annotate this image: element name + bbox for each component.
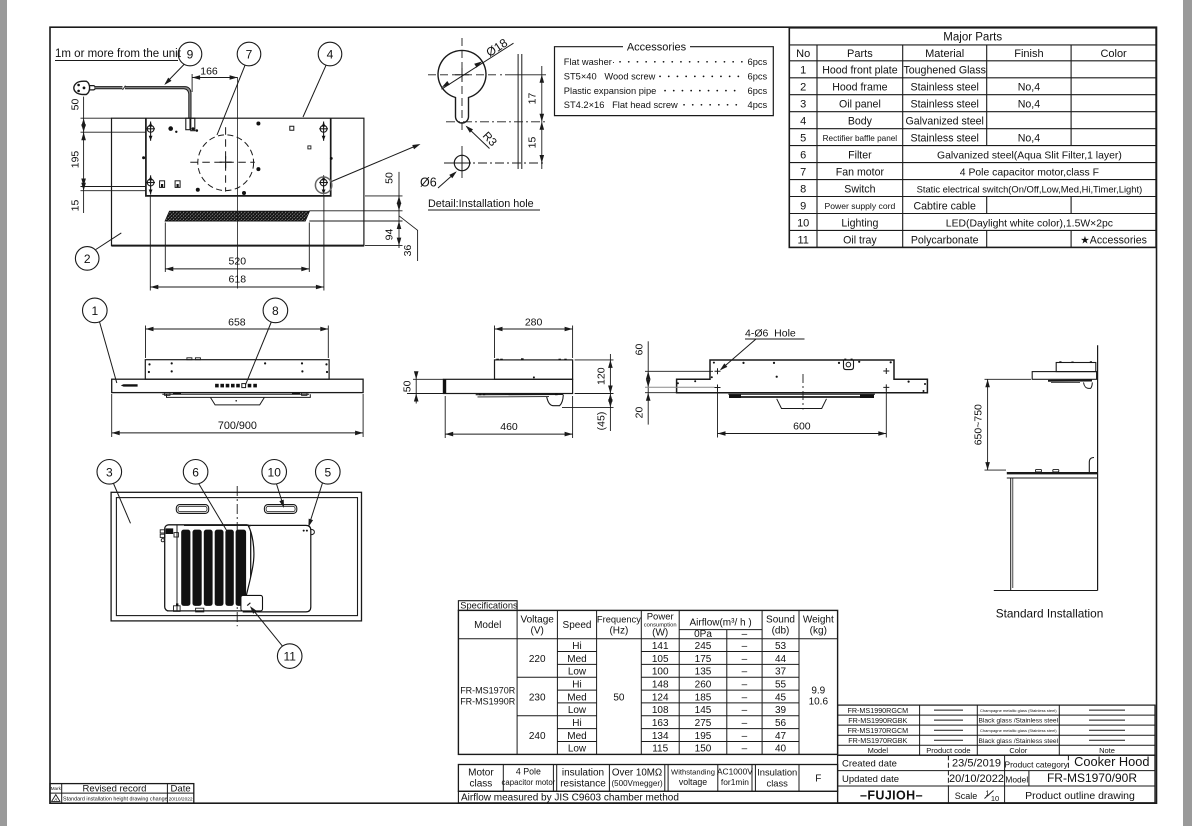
front plate [112, 379, 363, 392]
svg-text:Low: Low [568, 744, 587, 755]
hood oil cup [1084, 382, 1093, 388]
svg-text:Color: Color [1009, 746, 1027, 755]
balloon 6 [183, 460, 208, 485]
svg-text:185: 185 [695, 692, 712, 703]
svg-text:10: 10 [268, 465, 282, 479]
O6 centerline dash-dot [444, 162, 546, 164]
side view body [495, 360, 573, 379]
svg-text:Flat washer·: Flat washer· [564, 57, 615, 67]
svg-text:280: 280 [525, 317, 543, 329]
svg-text:Champagne metallic glass (Stai: Champagne metallic glass (Stainless stee… [980, 728, 1057, 733]
balloon 1 [83, 298, 108, 323]
svg-text:275: 275 [695, 718, 712, 729]
keyhole vertical centerline dashed [461, 38, 463, 132]
body centerline extension [237, 78, 239, 289]
svg-text:150: 150 [695, 744, 712, 755]
svg-text:148: 148 [652, 680, 669, 691]
svg-text:20/10/2022: 20/10/2022 [169, 796, 193, 802]
svg-text:Product category: Product category [1005, 759, 1069, 769]
svg-text:4 Pole capacitor motor,class F: 4 Pole capacitor motor,class F [960, 168, 1099, 179]
dim 618 [149, 196, 151, 291]
dim 600 [717, 390, 719, 438]
svg-text:–: – [742, 680, 748, 691]
cord break mark [123, 86, 125, 90]
svg-text:50: 50 [384, 172, 396, 184]
svg-text:–: – [742, 667, 748, 678]
svg-text:–: – [742, 692, 748, 703]
svg-text:Static electrical switch(On/Of: Static electrical switch(On/Off,Low,Med,… [917, 184, 1143, 195]
svg-text:50: 50 [613, 692, 625, 703]
svg-text:Updated date: Updated date [842, 774, 899, 785]
svg-text:Hood front plate: Hood front plate [822, 65, 897, 77]
svg-text:(db): (db) [772, 626, 790, 637]
svg-text:Filter: Filter [848, 150, 872, 162]
svg-text:Withstanding: Withstanding [671, 768, 715, 777]
svg-text:Mark: Mark [51, 786, 62, 791]
svg-text:240: 240 [529, 731, 546, 742]
svg-text:120: 120 [596, 367, 608, 385]
svg-text:(V): (V) [531, 626, 544, 637]
svg-text:658: 658 [228, 317, 246, 329]
fan centerline horizontal [190, 161, 255, 163]
svg-text:15: 15 [527, 137, 539, 149]
ext line body top [81, 117, 112, 119]
svg-text:10: 10 [991, 794, 999, 803]
dim 658 [145, 326, 147, 359]
svg-text:Med: Med [567, 654, 586, 665]
svg-text:5: 5 [800, 133, 806, 145]
rear view outline [677, 360, 928, 393]
fan centerline vertical [225, 127, 227, 191]
O6 cross [453, 154, 471, 172]
svg-text:No,4: No,4 [1018, 133, 1040, 145]
note dashes [1089, 710, 1125, 740]
svg-text:141: 141 [652, 641, 669, 652]
svg-text:17: 17 [527, 93, 539, 105]
svg-text:No,4: No,4 [1018, 99, 1040, 111]
svg-text:20: 20 [633, 407, 645, 419]
svg-text:45: 45 [775, 692, 787, 703]
svg-text:F: F [815, 774, 821, 785]
svg-text:135: 135 [695, 667, 712, 678]
svg-text:Airflow measured by JIS C9603: Airflow measured by JIS C9603 chamber me… [461, 792, 679, 803]
svg-text:105: 105 [652, 654, 669, 665]
rear oil panel trapezoid [777, 399, 827, 409]
under-plate line 1 [162, 393, 309, 395]
svg-text:(kg): (kg) [810, 626, 827, 637]
svg-text:Standard Installation: Standard Installation [996, 607, 1104, 621]
dim (45) [562, 406, 614, 408]
svg-text:Med: Med [567, 692, 586, 703]
svg-text:FR-MS1990RGBK: FR-MS1990RGBK [848, 716, 907, 725]
spec table verticals [517, 610, 799, 754]
revision triangle symbol [52, 795, 60, 802]
dim 195 left [83, 132, 85, 186]
model color table grid [838, 705, 1155, 755]
svg-text:Black glass /Stainless steel: Black glass /Stainless steel [979, 738, 1059, 745]
filter left clips [160, 530, 165, 533]
svg-text:195: 195 [70, 151, 82, 169]
svg-text:6pcs: 6pcs [748, 57, 768, 67]
balloon 9 [178, 42, 202, 66]
svg-text:Speed: Speed [563, 620, 592, 631]
dim 94 right [397, 221, 402, 229]
bottom view inner rect [116, 498, 357, 616]
svg-text:Toughened Glass: Toughened Glass [903, 65, 985, 77]
major parts table grid [789, 28, 1156, 248]
svg-text:Scale: Scale [955, 791, 978, 801]
svg-text:FR-MS1990RGCM: FR-MS1990RGCM [847, 706, 908, 715]
svg-text:Weight: Weight [803, 615, 834, 626]
svg-text:175: 175 [695, 654, 712, 665]
svg-text:10: 10 [797, 217, 809, 229]
oil panel side [476, 393, 564, 395]
balloon 2 [75, 247, 99, 271]
svg-text:9.9: 9.9 [811, 686, 825, 697]
balloon 7 [237, 42, 261, 66]
balloon 4 [318, 42, 342, 66]
top plate inner rect [146, 118, 331, 196]
baffle panel dots [303, 530, 305, 532]
svg-text:–FUJIOH–: –FUJIOH– [860, 788, 923, 802]
svg-text:1: 1 [800, 65, 806, 77]
keyhole center cross [455, 68, 469, 82]
svg-text:Ø6: Ø6 [420, 176, 437, 190]
screw BL [146, 175, 155, 194]
svg-text:Switch: Switch [844, 184, 875, 196]
svg-text:No: No [796, 48, 810, 60]
dim 36 leader [399, 216, 418, 261]
svg-text:1: 1 [91, 304, 98, 318]
svg-text:39: 39 [775, 705, 787, 716]
left gray page edge [0, 0, 7, 826]
body detail dots [168, 126, 173, 131]
svg-text:145: 145 [695, 705, 712, 716]
label R3 leader [467, 127, 490, 149]
svg-text:8: 8 [272, 304, 279, 318]
svg-text:Galvanized steel(Aqua Slit Fil: Galvanized steel(Aqua Slit Filter,1 laye… [937, 151, 1122, 162]
svg-text:Oil tray: Oil tray [843, 234, 877, 246]
svg-text:Finish: Finish [1014, 48, 1043, 60]
body top ticks [496, 359, 499, 360]
svg-text:245: 245 [695, 641, 712, 652]
svg-text:FR-MS1990R: FR-MS1990R [460, 697, 516, 707]
svg-text:50: 50 [70, 99, 82, 111]
dim 50 side [413, 378, 443, 380]
svg-text:2: 2 [800, 82, 806, 94]
svg-text:ST4.2×16 Flat head screw: ST4.2×16 Flat head screw [564, 100, 678, 110]
floor line [994, 590, 1098, 592]
svg-text:50: 50 [402, 380, 414, 392]
svg-text:Hood frame: Hood frame [832, 82, 887, 94]
svg-text:Material: Material [925, 48, 964, 60]
plate edge double line [517, 54, 519, 169]
svg-text:7: 7 [800, 167, 806, 179]
counter top [1007, 472, 1098, 474]
svg-text:Low: Low [568, 667, 587, 678]
dim 15 [540, 122, 545, 130]
svg-text:Fan motor: Fan motor [836, 167, 885, 179]
lamp slot 1 [176, 505, 208, 514]
plate front edge dark [443, 379, 446, 393]
cord grommet [186, 118, 190, 130]
oil tray [241, 595, 263, 611]
balloon 5 leader [309, 483, 322, 525]
svg-text:Rectifier baffle panel: Rectifier baffle panel [823, 134, 898, 143]
svg-text:47: 47 [775, 731, 787, 742]
cabinet front [1010, 478, 1012, 591]
balloon 11 leader [252, 608, 283, 646]
svg-text:Airflow(m³/ h ): Airflow(m³/ h ) [689, 618, 751, 629]
product code dashes [934, 710, 963, 740]
under-plate line 2 + oil panel trapezoid [167, 394, 311, 405]
svg-text:voltage: voltage [679, 777, 707, 787]
svg-text:618: 618 [229, 274, 247, 286]
svg-text:Oil panel: Oil panel [839, 99, 881, 111]
filter frame [165, 525, 251, 611]
accessories box [555, 47, 774, 116]
svg-text:Med: Med [567, 731, 586, 742]
svg-text:No,4: No,4 [1018, 82, 1040, 94]
dim 50 left [83, 97, 85, 140]
keyhole horizontal centerline dashed [428, 74, 502, 76]
svg-text:Low: Low [568, 705, 587, 716]
vent slot hatched [165, 211, 310, 221]
svg-text:Power supply cord: Power supply cord [825, 201, 896, 211]
svg-text:Over 10MΩ: Over 10MΩ [612, 768, 662, 779]
svg-text:Hi: Hi [572, 641, 581, 652]
svg-text:60: 60 [633, 344, 645, 356]
keyhole outline [438, 50, 486, 123]
svg-text:10.6: 10.6 [809, 697, 829, 708]
svg-text:3: 3 [106, 465, 113, 479]
svg-text:★Accessories: ★Accessories [1080, 234, 1147, 246]
svg-text:4 Pole: 4 Pole [516, 767, 541, 777]
svg-text:460: 460 [500, 421, 518, 433]
svg-text:Insulation: Insulation [757, 767, 797, 778]
svg-text:Power: Power [647, 612, 674, 623]
balloon 8 leader [245, 322, 271, 385]
svg-text:1m or more from the unit: 1m or more from the unit [55, 48, 182, 60]
svg-text:–: – [742, 718, 748, 729]
svg-text:4: 4 [800, 116, 806, 128]
small latch squares [160, 181, 165, 188]
ext line bottom screws [81, 186, 147, 188]
balloon 3 [97, 460, 122, 485]
logo mark on glass [121, 384, 138, 386]
baffle right tab [311, 529, 315, 535]
svg-text:230: 230 [529, 692, 546, 703]
svg-text:Standard installation height d: Standard installation height drawing cha… [63, 797, 168, 803]
balloon 10 [262, 460, 287, 485]
svg-text:Cooker Hood: Cooker Hood [1074, 754, 1149, 769]
bottom view outer rect [111, 492, 361, 621]
svg-text:5: 5 [324, 465, 331, 479]
dim 120 [575, 359, 614, 361]
svg-text:9: 9 [800, 201, 806, 213]
hood body side [1056, 363, 1096, 372]
svg-text:Voltage: Voltage [521, 615, 555, 626]
svg-text:FR-MS1970/90R: FR-MS1970/90R [1047, 771, 1137, 785]
diameter line O18 [442, 43, 514, 89]
svg-text:4-Ø6 Hole: 4-Ø6 Hole [745, 328, 796, 340]
lamp slot 2 [264, 505, 296, 514]
svg-text:166: 166 [200, 66, 218, 78]
svg-text:7: 7 [246, 48, 253, 62]
specifications label cell [458, 601, 517, 611]
svg-text:9: 9 [187, 48, 194, 62]
svg-text:–: – [742, 641, 748, 652]
svg-text:0Pa: 0Pa [694, 629, 712, 640]
svg-text:Cabtire cable: Cabtire cable [913, 201, 976, 213]
right gray page edge [1183, 0, 1192, 826]
svg-text:(Hz): (Hz) [609, 626, 628, 637]
svg-text:2: 2 [84, 252, 91, 266]
dim 280 [494, 326, 496, 359]
svg-text:–: – [742, 744, 748, 755]
ext line 15 [81, 190, 147, 192]
svg-text:Stainless steel: Stainless steel [911, 99, 979, 111]
power plug [74, 81, 90, 94]
svg-text:Accessories: Accessories [627, 41, 687, 53]
svg-text:520: 520 [229, 256, 247, 268]
cord outlet tab [844, 360, 854, 370]
svg-text:3: 3 [800, 99, 806, 111]
title block grid [838, 755, 1155, 803]
hood plate side [1032, 372, 1096, 380]
fan circle dashed [198, 135, 254, 191]
balloon 9 leader [166, 65, 185, 84]
spec table outer [458, 610, 837, 754]
revised record table [50, 784, 194, 804]
filter bottom-left tabs [174, 606, 181, 612]
rear view dots [742, 362, 744, 364]
baffle top edge [184, 524, 251, 526]
svg-text:Galvanized steel: Galvanized steel [906, 116, 984, 128]
power cord [95, 88, 190, 118]
svg-text:20/10/2022: 20/10/2022 [949, 773, 1004, 785]
svg-text:Product code: Product code [926, 746, 970, 755]
hood oil panel [1048, 380, 1092, 382]
screw TL [146, 122, 155, 141]
wall line [1097, 345, 1099, 590]
ext line top screws [81, 131, 147, 133]
svg-text:Model: Model [868, 746, 889, 755]
balloon 2 leader [96, 233, 122, 250]
svg-text:163: 163 [652, 718, 669, 729]
svg-text:class: class [767, 778, 789, 789]
switch buttons [215, 384, 219, 388]
svg-text:Stainless steel: Stainless steel [911, 133, 979, 145]
dim 700/900 [111, 394, 113, 437]
svg-text:(W): (W) [652, 628, 668, 639]
svg-text:Created date: Created date [842, 759, 897, 770]
svg-text:6pcs: 6pcs [748, 86, 768, 96]
svg-text:220: 220 [529, 654, 546, 665]
mounting holes + [715, 368, 890, 391]
svg-text:Revised record: Revised record [83, 783, 147, 794]
svg-text:11: 11 [797, 234, 808, 246]
body dots [148, 363, 150, 365]
svg-text:100: 100 [652, 667, 669, 678]
ext line circle center [505, 74, 546, 76]
rear centerline dash-dot [802, 374, 804, 410]
slot centerline dash-dot [446, 121, 546, 123]
svg-text:Product outline drawing: Product outline drawing [1025, 790, 1135, 802]
svg-text:56: 56 [775, 718, 787, 729]
dim 60/20 left [647, 341, 649, 424]
svg-text:6pcs: 6pcs [748, 72, 768, 82]
svg-text:Hi: Hi [572, 718, 581, 729]
svg-text:115: 115 [652, 744, 668, 755]
svg-text:108: 108 [652, 705, 669, 716]
filter slats [181, 530, 190, 606]
fan center cross [220, 156, 232, 168]
dim 166 [192, 77, 238, 79]
svg-text:4: 4 [327, 48, 334, 62]
balloon 5 [316, 460, 341, 485]
svg-text:Plastic expansion pipe: Plastic expansion pipe [564, 86, 657, 96]
svg-text:37: 37 [775, 667, 787, 678]
svg-text:(500Vmegger): (500Vmegger) [612, 779, 663, 788]
svg-text:23/5/2019: 23/5/2019 [952, 758, 1001, 770]
svg-text:44: 44 [775, 654, 787, 665]
svg-text:–: – [742, 705, 748, 716]
svg-text:(45): (45) [596, 412, 608, 431]
svg-text:FR-MS1970RGBK: FR-MS1970RGBK [848, 736, 907, 745]
balloon 4 leader [303, 65, 326, 117]
svg-text:resistance: resistance [560, 779, 606, 790]
svg-text:Black glass /Stainless steel: Black glass /Stainless steel [979, 718, 1059, 725]
hole O6 circle [454, 155, 469, 170]
svg-text:Detail:Installation hole: Detail:Installation hole [428, 198, 534, 210]
svg-text:134: 134 [652, 731, 669, 742]
svg-text:AC1000V: AC1000V [717, 767, 753, 777]
svg-text:Body: Body [848, 116, 873, 128]
svg-text:class: class [470, 779, 493, 790]
balloon 1 leader [100, 322, 117, 383]
dim 650~750 [985, 378, 1032, 380]
svg-text:Sound: Sound [766, 615, 795, 626]
balloon 7 leader [217, 65, 245, 135]
balloon 3 leader [114, 484, 131, 524]
svg-text:FR-MS1970R: FR-MS1970R [460, 686, 516, 696]
svg-text:Date: Date [171, 783, 191, 794]
rear bottom plate edge [728, 393, 875, 395]
svg-text:15: 15 [70, 200, 82, 212]
svg-text:Lighting: Lighting [841, 217, 878, 229]
body outer rect (top view) [112, 118, 364, 245]
airflow note row [458, 791, 837, 803]
balloon 11 [277, 644, 302, 669]
svg-text:40: 40 [775, 744, 787, 755]
front view upper body [145, 360, 329, 380]
oil cup hook [547, 395, 564, 406]
dim 520 [164, 223, 166, 273]
dim 50 right [398, 172, 400, 248]
svg-text:insulation: insulation [562, 768, 604, 779]
svg-text:4pcs: 4pcs [748, 100, 768, 110]
svg-text:700/900: 700/900 [218, 420, 257, 432]
svg-text:195: 195 [695, 731, 712, 742]
svg-text:Major Parts: Major Parts [943, 32, 1002, 44]
balloon 8 [263, 298, 288, 323]
balloon 6 leader [199, 484, 228, 532]
plug neck [89, 86, 95, 90]
svg-text:Stainless steel: Stainless steel [911, 82, 979, 94]
O6 vertical dashed [461, 146, 463, 181]
svg-text:Hi: Hi [572, 680, 581, 691]
